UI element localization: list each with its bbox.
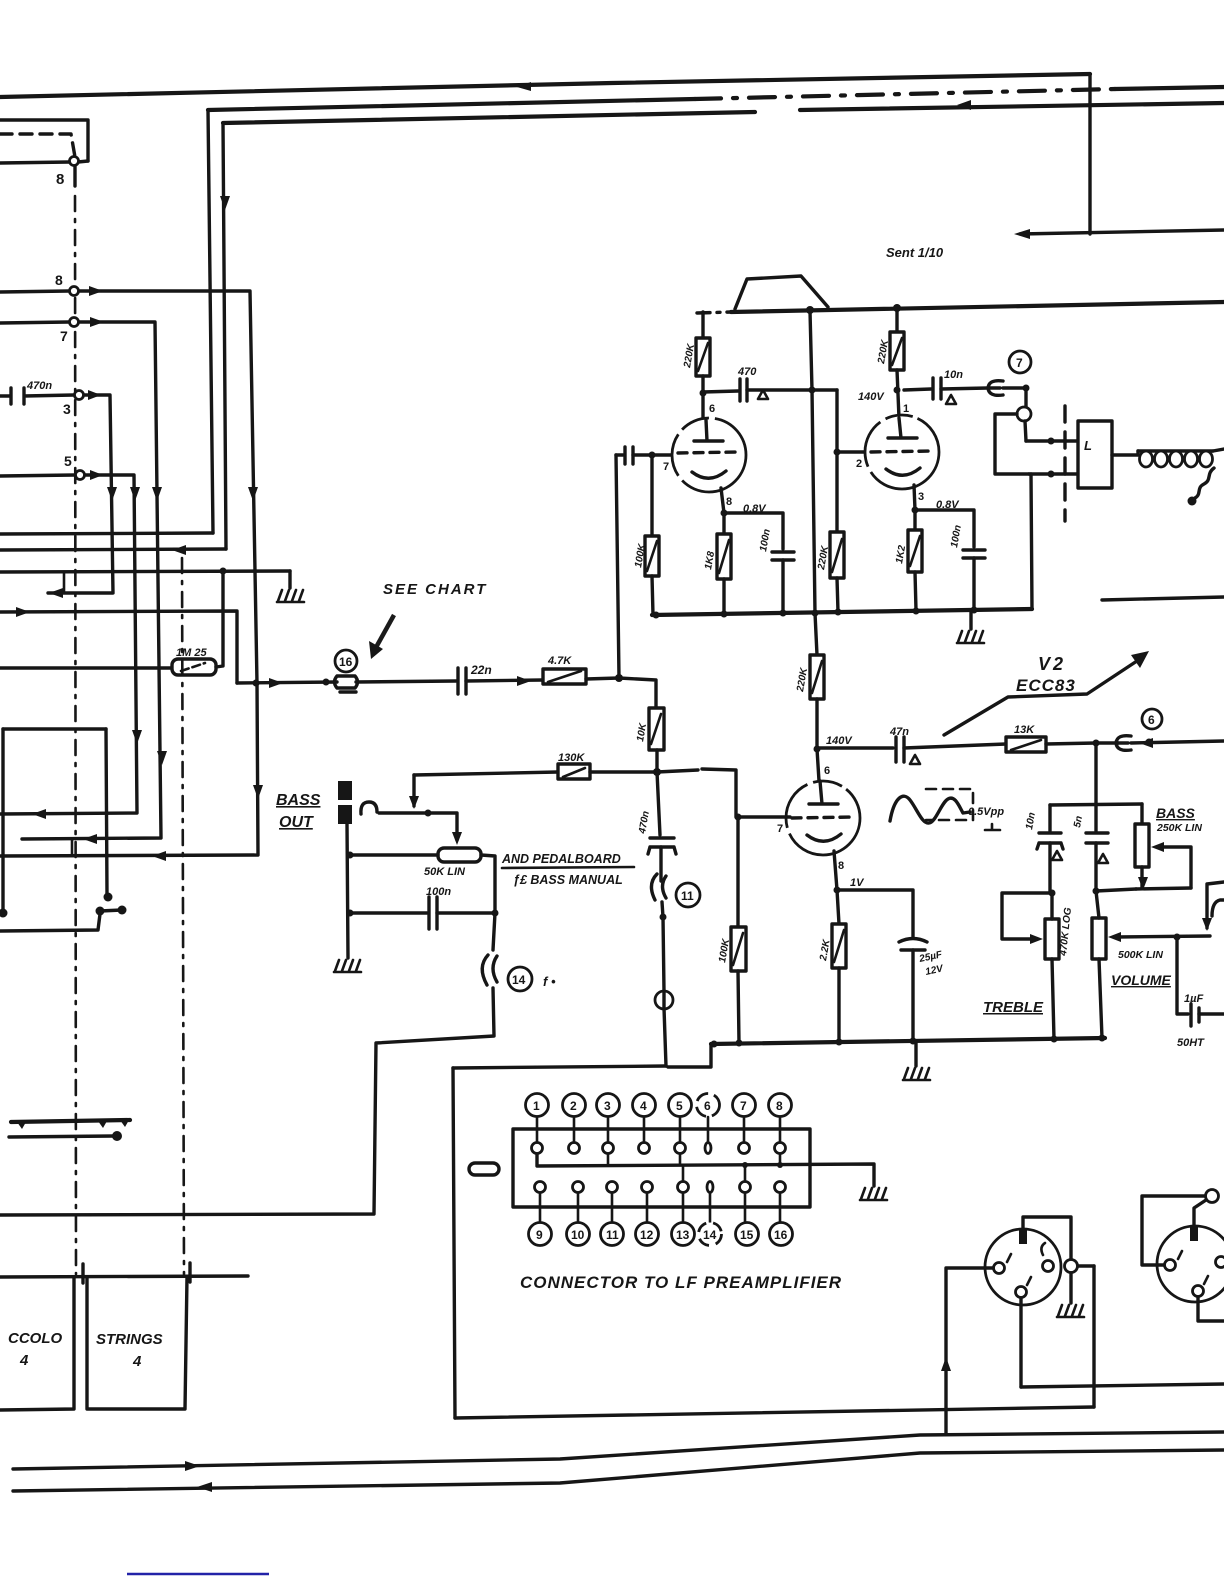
svg-text:Sent 1/10: Sent 1/10 bbox=[886, 245, 944, 260]
dash-dot vertical bus 2 bbox=[182, 558, 184, 1274]
svg-text:470: 470 bbox=[737, 366, 757, 378]
DIN1 top loop wire bbox=[1023, 1217, 1071, 1259]
pin 10 circled bbox=[567, 1223, 590, 1246]
svg-text:8: 8 bbox=[55, 272, 63, 288]
svg-text:2: 2 bbox=[856, 458, 862, 470]
wire long bottom line B bbox=[13, 1450, 1224, 1491]
wire row y549 bbox=[0, 549, 226, 550]
junction dot tone input bbox=[1093, 740, 1100, 747]
wire riser from rail to V2 bbox=[810, 311, 817, 655]
wire box to coil bbox=[1112, 451, 1138, 455]
arrow left on row 3 return bbox=[49, 588, 63, 598]
resistor 2.2K slash bbox=[834, 930, 844, 962]
wire row 3 to loop bbox=[48, 395, 113, 593]
bus stub pin 13 bbox=[682, 1165, 685, 1182]
wire switch to rail bbox=[1031, 474, 1032, 609]
svg-text:6: 6 bbox=[704, 1099, 711, 1113]
wire V2 bottom rail bbox=[711, 1038, 1105, 1044]
junction dot jack 7 bbox=[1023, 385, 1030, 392]
svg-text:5: 5 bbox=[676, 1099, 683, 1113]
jack tip contact 14 bbox=[482, 955, 497, 985]
DIN1 bottom pin tick bbox=[1027, 1277, 1031, 1285]
junction dot cathode V1a bbox=[721, 510, 728, 517]
svg-text:14: 14 bbox=[703, 1228, 717, 1242]
wire vertical from bus line 1 bbox=[1088, 74, 1091, 234]
junction dot jack wire bbox=[425, 810, 432, 817]
pin 1 circled bbox=[526, 1094, 549, 1117]
wire pot right up bbox=[216, 571, 223, 667]
svg-text:1µF: 1µF bbox=[1184, 993, 1203, 1005]
pin 5 circled bbox=[669, 1094, 692, 1117]
tube V1a grid dashes bbox=[678, 452, 740, 453]
pin 6 circled bbox=[697, 1094, 720, 1117]
svg-text:16: 16 bbox=[339, 655, 353, 669]
wire to input cap bbox=[616, 453, 623, 456]
svg-text:TREBLE: TREBLE bbox=[983, 999, 1044, 1016]
treble wiper arrow bbox=[1030, 934, 1043, 944]
DIN1 right pin tick bbox=[1041, 1243, 1045, 1255]
svg-text:100n: 100n bbox=[426, 886, 451, 898]
wire box top edge bbox=[453, 1066, 666, 1068]
wire bypass branch V1b bbox=[915, 510, 974, 547]
svg-text:BASS: BASS bbox=[276, 792, 321, 809]
svg-text:6: 6 bbox=[709, 403, 715, 415]
pin 2 circled bbox=[563, 1094, 586, 1117]
wire plate feed V1b bbox=[895, 306, 898, 332]
svg-text:500K LIN: 500K LIN bbox=[1118, 949, 1163, 961]
capacitor 25uF electrolytic bbox=[899, 939, 927, 951]
wire cathode resistor V1b to rail bbox=[915, 572, 916, 610]
arrow on wire bbox=[517, 676, 531, 686]
wire cap 47n to resistor 13K bbox=[904, 744, 1006, 748]
wire bus line 3 bbox=[223, 112, 755, 123]
circled 14 bbox=[508, 967, 532, 991]
svg-text:CCOLO: CCOLO bbox=[8, 1330, 62, 1347]
wire bus line 2 dashed part bbox=[695, 89, 1115, 99]
junction dot riser rail bbox=[812, 610, 819, 617]
svg-text:13: 13 bbox=[676, 1228, 690, 1242]
DIN2 right pin bbox=[1216, 1257, 1224, 1268]
dashed box on waveform bbox=[926, 789, 973, 820]
DIN1 top pin bbox=[1019, 1230, 1027, 1244]
wire resistor to rail bbox=[652, 576, 653, 615]
ground symbol DIN1 bbox=[1057, 1305, 1084, 1317]
svg-text:3: 3 bbox=[63, 401, 71, 417]
DIN2 bottom pin tick bbox=[1204, 1276, 1208, 1284]
ground stub row y571 bbox=[288, 571, 291, 588]
capacitor 1uF bbox=[1191, 1004, 1199, 1026]
wire through node bbox=[662, 992, 665, 1008]
shield hat over tubes bbox=[735, 276, 828, 309]
ground symbol connector bbox=[860, 1188, 887, 1200]
wire row y571 bbox=[0, 571, 290, 572]
wire bus line 2 right bbox=[1115, 87, 1224, 89]
svg-text:9: 9 bbox=[536, 1228, 543, 1242]
svg-text:1: 1 bbox=[533, 1099, 540, 1113]
arrow see chart pointer bbox=[374, 615, 394, 651]
pot 1M slash bbox=[181, 663, 205, 671]
arrow down on loop 7 bbox=[152, 487, 162, 501]
svg-text:7: 7 bbox=[1016, 356, 1023, 370]
wire jack 11 down bbox=[662, 902, 664, 991]
capacitor 100n bypass V1b bbox=[963, 550, 985, 558]
DIN2 top loop wire bbox=[1194, 1200, 1206, 1227]
resistor plate V1b slash bbox=[892, 338, 902, 365]
wire dashed stub bbox=[0, 134, 75, 157]
wire coil to edge bbox=[1213, 449, 1224, 451]
ground symbol row y571 bbox=[277, 590, 304, 602]
wire see-chart main bbox=[237, 682, 337, 683]
resistor plate V1a slash bbox=[698, 343, 708, 371]
jack ring contact bbox=[1017, 407, 1031, 421]
DIN1 feedthrough ground wire bbox=[1069, 1273, 1072, 1303]
wire cap to jack 11 bbox=[659, 847, 662, 881]
svg-text:5n: 5n bbox=[1072, 815, 1085, 828]
pin 16 circled bbox=[770, 1223, 793, 1246]
junction dot rail 6 bbox=[971, 607, 978, 614]
DIN2 feedthrough bbox=[1206, 1190, 1219, 1203]
wire treble pot top bbox=[1050, 893, 1053, 919]
wire 130K to junction bbox=[590, 770, 657, 773]
svg-text:11: 11 bbox=[681, 889, 694, 903]
svg-text:22n: 22n bbox=[470, 663, 492, 677]
contact dot blade a bbox=[96, 907, 105, 916]
junction dot input node bbox=[615, 674, 623, 682]
coil loudspeaker bbox=[1138, 449, 1213, 452]
svg-text:SEE CHART: SEE CHART bbox=[383, 581, 487, 598]
capacitor 470 coupling bbox=[740, 379, 747, 401]
svg-text:15: 15 bbox=[740, 1228, 754, 1242]
DIN1 left pin tick bbox=[1007, 1254, 1011, 1262]
wire stub top left bbox=[0, 120, 88, 161]
wire volume pot bottom to rail bbox=[1099, 959, 1102, 1038]
wire cap 5n branch bbox=[1094, 804, 1097, 831]
comb contact bar bbox=[11, 1120, 130, 1122]
wire 2.2K to rail bbox=[837, 968, 840, 1042]
junction dot switch upper bbox=[1048, 438, 1055, 445]
wire row 8 left bbox=[0, 291, 69, 292]
wire plate resistor to tube V1b bbox=[897, 370, 899, 418]
wire bass bottom bar bbox=[1136, 888, 1191, 889]
DIN2 top pin bbox=[1190, 1227, 1198, 1241]
wire resistor to junction bbox=[586, 678, 619, 679]
junction dot volume wiper bbox=[1174, 934, 1181, 941]
wire long bottom line A bbox=[13, 1432, 1224, 1469]
resistor 130K bbox=[558, 764, 590, 779]
wire plate feed V1a bbox=[701, 312, 704, 338]
junction dot grid V1b bbox=[834, 449, 841, 456]
resistor 100K V2 slash bbox=[733, 933, 743, 965]
pin 3 circled bbox=[597, 1094, 620, 1117]
arrow pointer V2 bbox=[944, 657, 1143, 735]
wire cap to jack 7 bbox=[941, 388, 988, 389]
node 3 junction bbox=[75, 391, 84, 400]
arrow on bus line 3 bbox=[957, 100, 971, 110]
junction dot V2 rail 1 bbox=[711, 1041, 718, 1048]
wire footage bar bbox=[0, 1276, 248, 1277]
arrow jack drop bbox=[1202, 918, 1212, 931]
DIN2 left pin bbox=[1165, 1260, 1176, 1271]
wire node to corner bbox=[78, 161, 88, 162]
tube V1b plate bar bbox=[888, 418, 917, 438]
junction dot rail b bbox=[893, 304, 901, 312]
DIN1 bottom wire bbox=[1019, 1298, 1022, 1387]
arrow up DIN1 left wire bbox=[941, 1357, 951, 1371]
svg-text:BASS: BASS bbox=[1156, 805, 1196, 821]
pin 13 circled bbox=[672, 1223, 695, 1246]
tube V1a plate bar bbox=[694, 420, 723, 441]
svg-text:50HT: 50HT bbox=[1177, 1037, 1205, 1049]
junction dot loop8 crossing bbox=[253, 680, 260, 687]
blue underline mark bbox=[127, 1573, 269, 1575]
junction dot V2 plate bbox=[814, 746, 821, 753]
underline AND PEDALBOARD bbox=[502, 867, 634, 868]
arrow down on loop 5 lower bbox=[132, 730, 142, 744]
wire box bottom edge bbox=[455, 1407, 1094, 1418]
wire cathode V1a bbox=[721, 488, 724, 534]
svg-text:14: 14 bbox=[512, 973, 526, 987]
switch blade bbox=[100, 910, 122, 911]
triangle mark 5n bbox=[1098, 854, 1108, 863]
wire switch left drop bbox=[1, 729, 4, 911]
circled 7 bbox=[1009, 351, 1031, 373]
wire tone node drop bbox=[1094, 743, 1097, 804]
capacitor 100n bass bbox=[429, 897, 437, 929]
svg-text:140V: 140V bbox=[858, 391, 885, 403]
DIN2 bottom pin bbox=[1193, 1286, 1204, 1297]
wire blade feed bbox=[0, 914, 100, 931]
resistor cathode V1b slash bbox=[910, 536, 920, 566]
wire bypass to rail bbox=[781, 560, 784, 614]
wire cap 10n branch bbox=[1048, 805, 1051, 831]
tube V2 plate bar bbox=[809, 781, 838, 804]
jack tip contact 7 bbox=[988, 381, 1003, 396]
junction dot bus 15 bbox=[742, 1162, 748, 1168]
node 5 junction bbox=[76, 471, 85, 480]
arrow left row y549 bbox=[172, 545, 186, 555]
junction dot pot left bbox=[347, 852, 354, 859]
arrow right line A bbox=[185, 1461, 200, 1471]
arrow pot wiper bbox=[452, 832, 462, 845]
wire row y668 to pot bbox=[0, 666, 172, 669]
resistor 2.2K V2 bbox=[832, 924, 846, 968]
svg-text:7: 7 bbox=[60, 328, 68, 344]
resistor 220K V2 slash bbox=[812, 661, 822, 693]
resistor 100K grid V1a bbox=[645, 536, 659, 576]
wire to coupling cap bbox=[703, 391, 738, 392]
wire 1uF branch bbox=[1177, 937, 1188, 1014]
wire row y611 bbox=[0, 611, 237, 683]
wire grid tap V1b bbox=[837, 450, 866, 453]
wire output to cap 10n bbox=[904, 389, 931, 390]
wire input riser bbox=[616, 455, 619, 678]
arrow row 5 right bbox=[90, 470, 103, 480]
junction dot V2 rail 4 bbox=[910, 1038, 917, 1045]
wire V2 plate node bbox=[817, 699, 819, 781]
resistor 13K bbox=[1006, 737, 1046, 752]
svg-text:3: 3 bbox=[604, 1099, 611, 1113]
svg-text:1: 1 bbox=[903, 403, 909, 415]
wire pot right drop bbox=[481, 855, 495, 913]
resistor 4.7K slash bbox=[548, 671, 581, 682]
capacitor 5n volume bbox=[1086, 833, 1108, 843]
svg-text:470n: 470n bbox=[26, 380, 52, 392]
capacitor 470n chain bbox=[648, 838, 676, 854]
junction dot 100n left bbox=[347, 910, 354, 917]
arrow bass bottom bbox=[1138, 877, 1148, 890]
node 8 junction bbox=[70, 287, 79, 296]
svg-text:V2: V2 bbox=[1038, 654, 1066, 674]
capacitor 10n treble bbox=[1037, 833, 1063, 849]
wire 1uF to edge bbox=[1199, 1012, 1224, 1015]
svg-text:f •: f • bbox=[543, 974, 556, 989]
DIN1 feedthrough to box wire bbox=[1078, 1264, 1094, 1267]
bus stub pin 15 bbox=[744, 1165, 747, 1182]
wire row y533 bbox=[0, 533, 213, 534]
svg-text:STRINGS: STRINGS bbox=[96, 1331, 163, 1348]
arrow left line B bbox=[197, 1482, 212, 1492]
contact dot right bbox=[104, 893, 113, 902]
potentiometer TREBLE 470K bbox=[1045, 919, 1059, 959]
pin 8 circled bbox=[769, 1094, 792, 1117]
wire cathode V1b bbox=[914, 485, 915, 530]
wire at y=162 bbox=[0, 162, 70, 163]
capacitor 470n row 3 bbox=[0, 388, 74, 404]
resistor plate V1a bbox=[696, 338, 710, 376]
triangle mark 47n bbox=[910, 755, 920, 764]
dashed separator at box bbox=[1063, 406, 1066, 521]
jack tip contact 11 bbox=[651, 874, 666, 900]
wire cap to resistor bbox=[466, 680, 543, 681]
triangle mark 10n bbox=[1052, 851, 1062, 860]
wire grid line left bbox=[414, 772, 558, 775]
svg-text:250K LIN: 250K LIN bbox=[1156, 822, 1202, 834]
tick arrow footage 2 bbox=[188, 1263, 191, 1282]
triangle mark cap bbox=[758, 390, 768, 399]
svg-text:7: 7 bbox=[777, 823, 783, 835]
wire bottom rail bbox=[652, 609, 1032, 615]
bus stub pin 3 bbox=[607, 1154, 610, 1165]
DIN2 bottom wire bbox=[1198, 1297, 1224, 1321]
polarity mark bbox=[985, 824, 1000, 830]
svg-text:L: L bbox=[1084, 438, 1092, 453]
wire 100K V2 to rail bbox=[738, 971, 739, 1043]
wire cathode resistor to rail bbox=[722, 579, 725, 614]
wire 10K drop bbox=[619, 678, 656, 708]
resistor 220K plate V2 bbox=[810, 655, 824, 699]
blob end of squiggle bbox=[1188, 497, 1197, 506]
wire bus line 3 corner drop bbox=[223, 123, 226, 549]
wire top rail dashed start bbox=[697, 312, 731, 313]
wire treble pot bottom to rail bbox=[1052, 959, 1054, 1039]
wire bass branch bbox=[1140, 804, 1143, 824]
svg-text:CONNECTOR TO LF PREAMPLIFIER: CONNECTOR TO LF PREAMPLIFIER bbox=[520, 1273, 842, 1292]
box PICCOLO right edge bbox=[87, 1277, 187, 1409]
svg-text:5: 5 bbox=[64, 453, 72, 469]
wire row 5 to loop bbox=[0, 475, 137, 814]
triangle mark cap 10n bbox=[946, 395, 956, 404]
box PICCOLO 4 bbox=[0, 1277, 74, 1410]
potentiometer VOLUME 500K bbox=[1092, 918, 1106, 959]
junction dot rail 2 bbox=[721, 611, 728, 618]
wire plate to cap 47n bbox=[817, 746, 893, 749]
tube V1b grid dashes bbox=[871, 451, 934, 452]
DIN1 right pin bbox=[1043, 1261, 1054, 1272]
junction dot rail a bbox=[806, 306, 814, 314]
junction dot volume node bbox=[1093, 888, 1100, 895]
wire volume pot top bbox=[1096, 891, 1099, 918]
pin 11 circled bbox=[601, 1223, 624, 1246]
junction dot V2 rail 6 bbox=[1099, 1035, 1106, 1042]
wire bus line 2 corner drop bbox=[208, 110, 213, 533]
arrow right row y611 bbox=[16, 607, 30, 617]
tube V1a envelope bbox=[672, 418, 746, 492]
svg-text:ECC83: ECC83 bbox=[1016, 676, 1076, 695]
node B junction circle bbox=[70, 157, 79, 166]
jack body bass out bbox=[338, 781, 352, 824]
arrow on jack 6 wire bbox=[1139, 738, 1153, 748]
node 7 junction bbox=[70, 318, 79, 327]
wire 10n to wiper node bbox=[1048, 843, 1051, 893]
capacitor 47n bbox=[896, 737, 904, 762]
resistor 4.7K bbox=[543, 669, 586, 684]
arrow bass out drop bbox=[409, 796, 419, 809]
junction dot cathode V1b bbox=[912, 507, 919, 514]
svg-text:6: 6 bbox=[1148, 713, 1155, 727]
jack tip contact 6 bbox=[1116, 736, 1131, 751]
wire 10K to grid line bbox=[655, 750, 658, 772]
svg-text:12: 12 bbox=[640, 1228, 654, 1242]
svg-text:8: 8 bbox=[56, 171, 64, 188]
ground symbol V1 rail bbox=[957, 631, 984, 643]
arrow on bus line 1 bbox=[517, 82, 531, 91]
arrow down on loop 8 bbox=[248, 487, 258, 501]
wire cap output bbox=[747, 388, 837, 391]
wire bus line 1 bbox=[0, 74, 1090, 97]
comb feet bbox=[17, 1120, 129, 1129]
potentiometer 50K LIN bbox=[438, 848, 481, 862]
volume wiper arrow bbox=[1108, 932, 1121, 942]
pin 15 circled bbox=[736, 1223, 759, 1246]
arrow left on row 7 return bbox=[83, 834, 97, 844]
junction dot plate node V1a bbox=[700, 390, 707, 397]
connector body rectangle bbox=[513, 1129, 810, 1207]
wire bottom rail right segment bbox=[1102, 597, 1224, 600]
arrow down on loop 7 lower bbox=[157, 751, 167, 765]
pin 12 circled bbox=[636, 1223, 659, 1246]
transformer box L bbox=[1078, 421, 1112, 488]
svg-text:11: 11 bbox=[606, 1228, 619, 1242]
wire drop to bass out jack bbox=[412, 775, 415, 806]
output jack right edge bbox=[1207, 882, 1224, 928]
wire grid leak drop bbox=[650, 455, 653, 536]
ground stub V2 rail bbox=[914, 1042, 917, 1066]
tube V2 cathode arc bbox=[807, 834, 841, 841]
jack switch bracket bbox=[995, 414, 1029, 474]
resistor 13K slash bbox=[1011, 740, 1041, 750]
wire rail hook to box top bbox=[668, 1044, 711, 1067]
comb lower blade bbox=[9, 1136, 114, 1137]
circled 6 bbox=[1142, 709, 1162, 729]
resistor 220K slash bbox=[832, 539, 842, 572]
svg-text:7: 7 bbox=[663, 461, 669, 473]
ground symbol V2 rail bbox=[903, 1068, 930, 1080]
junction dot V2 rail 3 bbox=[836, 1039, 843, 1046]
contact dot left bbox=[0, 909, 8, 918]
connector lug 16 bbox=[335, 676, 358, 692]
junction dot rail 4 bbox=[835, 609, 842, 616]
tube V2 envelope bbox=[786, 781, 860, 855]
